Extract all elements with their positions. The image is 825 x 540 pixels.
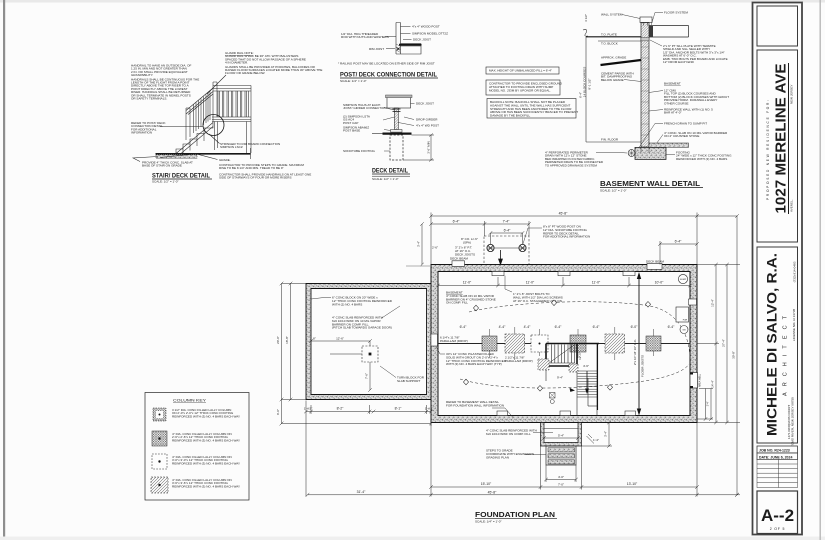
- sump circle: [678, 274, 687, 283]
- svg-text:SCALE: 1/2" = 1'-0": SCALE: 1/2" = 1'-0": [600, 189, 627, 193]
- svg-text:GRADE.: GRADE.: [219, 158, 231, 162]
- svg-text:5'-4": 5'-4": [558, 434, 564, 438]
- svg-text:4"x 4" WOOD POST: 4"x 4" WOOD POST: [412, 25, 440, 29]
- stoop step 2: [548, 454, 575, 458]
- top right dim 6'-4": [658, 241, 699, 265]
- svg-text:2 OF 5: 2 OF 5: [770, 527, 786, 531]
- approx grade thick line: [601, 60, 642, 65]
- lower stair treads: [578, 371, 598, 394]
- deck joists note: [455, 246, 475, 257]
- svg-text:AREA WELL: AREA WELL: [699, 373, 702, 387]
- svg-text:SCALE: 1/4" = 1'-0": SCALE: 1/4" = 1'-0": [340, 79, 367, 83]
- key symbol 1: [153, 408, 166, 421]
- drop girder hatched post: [394, 108, 398, 130]
- leader slab note: [133, 157, 158, 162]
- note box: sump pump: [486, 80, 560, 95]
- svg-text:(732) 914-0483: (732) 914-0483: [793, 261, 797, 282]
- title box 3 (architect): [757, 247, 798, 443]
- right side dims: [697, 214, 740, 496]
- stair down arrow: [586, 371, 588, 391]
- stair balusters on slope: [194, 92, 211, 134]
- leader guard rail note: [207, 75, 226, 94]
- steps to grade note: [486, 449, 534, 460]
- joist bolts note: [513, 292, 563, 303]
- key symbol 4: [151, 477, 168, 493]
- svg-text:12'-4": 12'-4": [711, 299, 715, 307]
- svg-text:PARALLAM (DROP): PARALLAM (DROP): [505, 359, 533, 363]
- refer to basement wall note: [446, 400, 504, 407]
- svg-text:4'-6": 4'-6": [583, 364, 589, 368]
- deck detail leaders: [383, 104, 415, 152]
- svg-text:FRENCH DRAIN TO SUMP PIT: FRENCH DRAIN TO SUMP PIT: [664, 122, 707, 126]
- deck beam line between posts: [487, 247, 526, 249]
- svg-text:INFORMATION: INFORMATION: [131, 131, 152, 135]
- ext line from main corner left: [406, 265, 431, 267]
- right paper edge line: [820, 0, 821, 540]
- svg-text:6'-4": 6'-4": [668, 325, 676, 329]
- svg-text:30'-8": 30'-8": [732, 351, 736, 359]
- top wall pilasters: [492, 272, 635, 276]
- deck detail left labels: [343, 103, 387, 153]
- column A crosshatch: [482, 336, 497, 351]
- svg-text:RIM JOIST: RIM JOIST: [369, 47, 384, 51]
- svg-text:FIN. FLOOR: FIN. FLOOR: [601, 138, 619, 142]
- svg-text:SIDE OF STAIRWAYS OF FOUR OR M: SIDE OF STAIRWAYS OF FOUR OR MORE RISERS: [219, 176, 292, 180]
- span bubble arcs: [469, 302, 690, 358]
- T.O. PLATE line: [586, 36, 641, 38]
- stoop step 1: [548, 448, 575, 452]
- svg-text:6'-0": 6'-0": [276, 409, 280, 415]
- leader grade note: [160, 154, 218, 160]
- svg-text:FOUNDATION PLAN: FOUNDATION PLAN: [475, 512, 555, 519]
- sheet number box: [757, 491, 798, 534]
- gb circle: [680, 326, 688, 334]
- column D crosshatch: [570, 335, 586, 352]
- sill note leader: [650, 40, 662, 46]
- column E diagonal dashed: [605, 334, 625, 353]
- svg-text:12'-6": 12'-6": [336, 337, 344, 341]
- rim board dark: [649, 26, 653, 37]
- handrail note text: [131, 64, 199, 101]
- block course lines: [641, 47, 649, 135]
- footing depth dim: [403, 134, 434, 162]
- svg-text:SCALE: 1/2" = 1'-0": SCALE: 1/2" = 1'-0": [152, 180, 179, 184]
- svg-text:8'-2": 8'-2": [337, 407, 345, 411]
- reinforce leader: [649, 110, 663, 112]
- svg-text:3'-4": 3'-4": [604, 431, 608, 437]
- svg-text:GRADING PLAN: GRADING PLAN: [486, 455, 509, 459]
- svg-text:6'-4": 6'-4": [555, 325, 563, 329]
- stair mid newel post: [186, 108, 190, 140]
- top dim row 2: [429, 221, 531, 236]
- footing leader: [666, 154, 675, 156]
- footing keyway: [641, 147, 649, 152]
- svg-text:7'-0": 7'-0": [558, 483, 564, 487]
- svg-text:7'-6": 7'-6": [365, 373, 369, 379]
- svg-text:POST BASE: POST BASE: [343, 129, 360, 133]
- note box: backfill: [487, 99, 576, 119]
- slab note at stoop: [486, 429, 537, 436]
- garage block note: [332, 296, 393, 307]
- svg-text:11'-0": 11'-0": [592, 281, 601, 285]
- stoop interior dim: [542, 436, 580, 440]
- title block outer frame: [753, 3, 803, 535]
- refer to post/deck note: [131, 121, 166, 135]
- bottom dim row 2: [429, 423, 699, 497]
- svg-text:WITH (2) NO. 4 BARS: WITH (2) NO. 4 BARS: [332, 302, 362, 306]
- threaded rod note: [341, 32, 389, 39]
- garage bottom dims: [304, 401, 433, 419]
- left height dim line: [583, 29, 588, 142]
- svg-text:3'-4": 3'-4": [417, 241, 421, 247]
- svg-text:6'-4": 6'-4": [504, 229, 512, 233]
- column center ticks: [490, 327, 654, 360]
- svg-text:3'-4": 3'-4": [708, 402, 710, 407]
- svg-text:20'-0": 20'-0": [276, 336, 280, 344]
- stoop step 3: [548, 460, 575, 464]
- garage column dashed block: [362, 346, 378, 362]
- stair thick L: [546, 344, 599, 367]
- svg-text:BELOW GRADE: BELOW GRADE: [601, 78, 624, 82]
- svg-text:6'-0": 6'-0": [631, 325, 639, 329]
- title box 2 (project address): [757, 50, 798, 242]
- leader stringer note: [209, 134, 220, 144]
- left wall pilaster: [431, 334, 438, 346]
- svg-text:SUMP: SUMP: [680, 279, 687, 281]
- svg-text:DECK BEAM: DECK BEAM: [646, 259, 664, 263]
- svg-text:ON COMP. FILL: ON COMP. FILL: [446, 301, 468, 305]
- svg-text:7'-4": 7'-4": [503, 220, 511, 224]
- deck guard rail top: [213, 86, 251, 92]
- svg-text:6'-4": 6'-4": [593, 325, 601, 329]
- cement parge leader: [624, 80, 641, 82]
- svg-text:SCALE: 1/2" = 1'-0": SCALE: 1/2" = 1'-0": [372, 177, 399, 181]
- svg-text:FOR FOUNDATION WALL INFORMATIO: FOR FOUNDATION WALL INFORMATION: [446, 403, 504, 407]
- wall system leader: [622, 15, 640, 19]
- joist span arrow: [638, 275, 640, 413]
- deck dashed outline: [484, 236, 529, 265]
- french drain pipe: [628, 150, 635, 157]
- svg-text:REINFORCED WITH (3) NO. 4 BARS: REINFORCED WITH (3) NO. 4 BARS EACH WAY: [172, 438, 240, 442]
- right wall pilaster: [689, 299, 697, 305]
- stoop steps outer: [546, 446, 576, 465]
- stoop right small dim: [582, 421, 613, 448]
- svg-text:JOB NO. R24-1223: JOB NO. R24-1223: [759, 449, 790, 453]
- sill plate note: [663, 44, 728, 64]
- conc slab leader: [657, 135, 663, 143]
- stair newel post top: [213, 82, 218, 150]
- stair hatch squares: [538, 359, 549, 370]
- column key box: [145, 393, 249, 501]
- column dim labels: [460, 325, 676, 329]
- svg-text:A--2: A--2: [761, 506, 794, 525]
- grade bar: [383, 133, 412, 135]
- svg-text:ON 4" CRUSHED STONE: ON 4" CRUSHED STONE: [664, 134, 699, 138]
- deck joist bar: [401, 43, 422, 45]
- footing: [635, 147, 666, 159]
- svg-text:ARCHITECT: ARCHITECT: [783, 315, 789, 396]
- svg-text:4'-4": 4'-4": [499, 325, 507, 329]
- joist bolts leader: [505, 276, 512, 292]
- deck detail right labels: [416, 102, 439, 128]
- stair treads: [176, 122, 213, 154]
- girder connection marks: [393, 109, 401, 112]
- svg-text:PARALLAM (DROP): PARALLAM (DROP): [440, 339, 468, 343]
- left paper edge: [3, 0, 5, 540]
- svg-text:FUR: FUR: [683, 320, 688, 322]
- svg-text:WITH (3) NO. 4 BARS EACH WAY (: WITH (3) NO. 4 BARS EACH WAY (TYP): [446, 362, 502, 366]
- wall system box above: [640, 17, 652, 23]
- svg-text:15'-10": 15'-10": [481, 482, 492, 486]
- svg-text:AVENEL,: AVENEL,: [790, 199, 794, 212]
- svg-text:SLAB SUPPORT: SLAB SUPPORT: [397, 379, 420, 383]
- cement parge note: [601, 72, 634, 82]
- svg-text:SONOTUBE FOOTING: SONOTUBE FOOTING: [343, 149, 375, 153]
- footing note: [676, 151, 732, 161]
- stair enclosure: [546, 344, 597, 416]
- svg-text:3 1/2": 3 1/2": [584, 14, 588, 22]
- svg-text:DECK JOIST: DECK JOIST: [416, 102, 434, 106]
- svg-text:JOIST/ GIRDER CONNECTION: JOIST/ GIRDER CONNECTION: [343, 106, 387, 110]
- deck rim and post right: [247, 86, 252, 154]
- stringer connection note: [220, 142, 280, 149]
- slab note: [142, 161, 193, 168]
- garage left dims: [280, 282, 306, 426]
- svg-text:10'-0": 10'-0": [655, 281, 664, 285]
- bottom paper edge: [0, 537, 825, 540]
- sill plate: [641, 38, 649, 41]
- svg-text:NEW JERSEY: NEW JERSEY: [790, 84, 794, 104]
- top paper edge: [0, 0, 825, 3]
- floor system leader: [651, 13, 663, 26]
- svg-text:8": 8": [313, 337, 316, 341]
- svg-text:APPROX. GRADE: APPROX. GRADE: [601, 56, 626, 60]
- svg-text:11'-0": 11'-0": [463, 281, 472, 285]
- leader to detail circle: [160, 126, 203, 128]
- svg-text:13'-10": 13'-10": [627, 482, 638, 486]
- svg-text:TOMS RIVER, NEW JERSEY 087: TOMS RIVER, NEW JERSEY 08755: [791, 397, 795, 447]
- garage overall dim: [280, 414, 433, 426]
- wood post: [396, 23, 401, 55]
- sonotube footing dashed: [390, 135, 403, 160]
- svg-text:4'-4": 4'-4": [524, 325, 532, 329]
- key symbol 3: [152, 454, 167, 469]
- svg-text:GB: GB: [682, 330, 686, 332]
- svg-text:FLOOR JOISTS: FLOOR JOISTS: [641, 355, 645, 377]
- svg-text:2'-6": 2'-6": [432, 246, 438, 250]
- garage slab leader: [381, 306, 400, 319]
- svg-text:2"x 10" AT 16" O.C.: 2"x 10" AT 16" O.C.: [633, 339, 637, 365]
- svg-text:45'-8": 45'-8": [488, 490, 497, 494]
- svg-text:MICHELE DI SALVO, R.A.: MICHELE DI SALVO, R.A.: [765, 253, 780, 436]
- svg-text:T.O. BLOCK: T.O. BLOCK: [601, 41, 618, 45]
- svg-text:6x6 10/10 WWF ON COMP. FILL: 6x6 10/10 WWF ON COMP. FILL: [486, 432, 531, 436]
- svg-text:(PITCH SLAB TOWARDS GARAGE DOO: (PITCH SLAB TOWARDS GARAGE DOOR): [332, 326, 392, 330]
- svg-text:BAR AT 4'-0": BAR AT 4'-0": [664, 111, 681, 115]
- deck board on joist: [386, 95, 413, 98]
- riser verticals below: [183, 134, 204, 154]
- steps to grade note: [219, 163, 311, 180]
- block wall strip: [641, 23, 649, 148]
- bolt symbols: [397, 48, 400, 51]
- svg-text:REINFORCED WITH (3) NO. 4 BARS: REINFORCED WITH (3) NO. 4 BARS EACH WAY: [172, 461, 240, 465]
- column F crosshatch: [646, 336, 661, 351]
- turn block leader: [380, 366, 396, 378]
- svg-text:T.O. PLATE: T.O. PLATE: [601, 33, 617, 37]
- svg-text:1'-4.5": 1'-4.5": [304, 407, 313, 411]
- svg-text:FLOOR SYSTEM: FLOOR SYSTEM: [664, 11, 688, 15]
- svg-text:6'-4": 6'-4": [460, 325, 468, 329]
- svg-text:SCALE: 1/4" = 1'-0": SCALE: 1/4" = 1'-0": [475, 520, 502, 524]
- svg-text:12" FROM EACH END: 12" FROM EACH END: [663, 60, 695, 64]
- stoop wall: [541, 423, 582, 447]
- post hatch at connection: [396, 44, 401, 53]
- fur box: [676, 307, 689, 322]
- deck piers on top wall: [452, 261, 465, 267]
- deck post note leader: [523, 228, 542, 244]
- svg-text:3'-6" MIN: 3'-6" MIN: [427, 141, 431, 154]
- turn block note: [397, 376, 425, 383]
- svg-text:POST/ DECK CONNECTION DETAI: POST/ DECK CONNECTION DETAIL: [340, 73, 437, 79]
- garage block leader: [311, 298, 331, 300]
- perimeter drain note: [545, 151, 604, 168]
- top dim row 3 (between posts): [489, 231, 525, 244]
- svg-text:REINFORCED WITH (3) NO. 4 BARS: REINFORCED WITH (3) NO. 4 BARS EACH WAY: [172, 484, 240, 488]
- svg-text:12'-1": 12'-1": [578, 352, 582, 360]
- svg-text:MAX. HEIGHT OF UNBALANCED FILL: MAX. HEIGHT OF UNBALANCED FILL = 6'-4": [489, 69, 552, 73]
- svg-text:FOR ADDITIONAL INFORMATION: FOR ADDITIONAL INFORMATION: [543, 235, 590, 239]
- stoop corner small dim tick: [587, 434, 595, 444]
- basement slab: [649, 143, 689, 147]
- svg-text:14'-4": 14'-4": [711, 380, 715, 388]
- top overall dim line 45'-8": [429, 213, 737, 265]
- garage column dims: [309, 339, 372, 392]
- pilaster note leader: [436, 347, 445, 355]
- floor system: [649, 26, 689, 38]
- svg-text:31'-4": 31'-4": [357, 490, 366, 494]
- svg-text:1'-4.5": 1'-4.5": [425, 407, 434, 411]
- svg-text:ROD WITH NUTS AND WASHERS: ROD WITH NUTS AND WASHERS: [341, 35, 389, 39]
- svg-text:DROP GIRDER: DROP GIRDER: [416, 118, 438, 122]
- conc slab at stair base: [156, 155, 197, 159]
- svg-text:DATE: JUNE 6, 2024: DATE: JUNE 6, 2024: [759, 455, 792, 459]
- fin floor line: [586, 141, 641, 143]
- deck balusters: [218, 91, 249, 117]
- parallam label left: [440, 336, 468, 343]
- svg-text:BASEMENT WALL DETAIL: BASEMENT WALL DETAIL: [600, 181, 701, 188]
- svg-text:REINFORCED WITH (3) NO. 4 BARS: REINFORCED WITH (3) NO. 4 BARS EACH WAY: [172, 414, 240, 418]
- stair up diagonal: [549, 345, 574, 363]
- garage wall: [306, 284, 431, 400]
- svg-text:TO APPROVED DRAINAGE SYSTEM: TO APPROVED DRAINAGE SYSTEM: [545, 163, 597, 167]
- area well opening in right wall: [690, 373, 698, 389]
- post/deck labels right: [412, 25, 448, 42]
- svg-text:8'-1": 8'-1": [395, 407, 403, 411]
- stair stringer: [176, 123, 213, 154]
- svg-text:45'-8": 45'-8": [559, 212, 568, 216]
- deck post left: [487, 244, 494, 251]
- svg-text:6'-4": 6'-4": [675, 240, 683, 244]
- svg-text:OTHER COURSE: OTHER COURSE: [664, 101, 689, 105]
- detail callout circle: [203, 115, 224, 136]
- svg-text:4"x 4" WD POST: 4"x 4" WD POST: [416, 124, 439, 128]
- left vertical dim 3'-4": [420, 222, 424, 266]
- svg-text:POST CAP: POST CAP: [343, 121, 358, 125]
- svg-text:MODEL NO. J33M BY UPONOR OR EQ: MODEL NO. J33M BY UPONOR OR EQUAL.: [489, 88, 551, 92]
- svg-text:11'-0": 11'-0": [526, 281, 535, 285]
- perimeter drain leader: [596, 152, 627, 155]
- svg-text:DAMAGE BY THE BACKFILL: DAMAGE BY THE BACKFILL: [490, 114, 530, 118]
- deck post right: [519, 244, 526, 251]
- svg-text:FLOOR OR GRADE BELOW.: FLOOR OR GRADE BELOW.: [225, 71, 265, 75]
- svg-text:8'-1 1/2": 8'-1 1/2": [588, 78, 592, 89]
- cmu leader: [649, 91, 663, 93]
- bottom overall dim: [306, 418, 740, 497]
- post base plate: [391, 130, 403, 133]
- svg-text:SIMPSON LSCZ: SIMPSON LSCZ: [220, 145, 243, 149]
- ground line: [156, 153, 251, 155]
- svg-text:1'-4": 1'-4": [593, 438, 599, 442]
- svg-text:RISE TO BE 8 1/4" AND MIN. TRE: RISE TO BE 8 1/4" AND MIN. TREAD TO BE 9…: [219, 166, 284, 170]
- svg-text:27'-4": 27'-4": [722, 339, 726, 347]
- T.O. BLOCK line: [598, 40, 641, 42]
- svg-text:14 BLOCK COURSES: 14 BLOCK COURSES: [583, 67, 587, 97]
- stoop landing edge: [544, 428, 578, 430]
- svg-text:DECK BEAM: DECK BEAM: [450, 257, 468, 261]
- job no row: [757, 446, 798, 453]
- arc diamonds: [463, 300, 650, 391]
- interior top dim row 11'-0": [436, 277, 692, 287]
- deck post note: [543, 225, 590, 239]
- conc slab note: [664, 131, 728, 138]
- joist thick top: [399, 44, 422, 46]
- bottom wall pilasters: [497, 411, 636, 416]
- svg-text:OR SAFETY TERMINALS.: OR SAFETY TERMINALS.: [131, 97, 167, 101]
- parallam label mid: [505, 356, 533, 363]
- svg-text:REINFORCED WITH (3) NO. 4 BARS: REINFORCED WITH (3) NO. 4 BARS: [676, 157, 727, 161]
- guard rail note text: [225, 51, 322, 75]
- upper stair treads: [552, 345, 575, 364]
- refer note leader: [492, 408, 513, 418]
- svg-text:COLUMN KEY: COLUMN KEY: [173, 399, 207, 403]
- svg-text:4'-0": 4'-0": [558, 475, 564, 479]
- svg-text:1027 MERELINE AVE: 1027 MERELINE AVE: [774, 63, 790, 213]
- deck floor boards: [212, 117, 251, 122]
- note box: max unbalanced fill: [486, 67, 559, 74]
- title box 1 (empty seal box): [757, 6, 798, 46]
- svg-text:9'-4": 9'-4": [557, 376, 563, 380]
- svg-text:DECK JOISTS: DECK JOISTS: [455, 252, 475, 256]
- basement label block: [446, 291, 496, 305]
- deck joist box: [387, 97, 411, 109]
- column C dashed white: [531, 335, 548, 352]
- svg-text:18'-8": 18'-8": [285, 336, 289, 344]
- svg-text:* RAILING POST MAY BE LOCATED: * RAILING POST MAY BE LOCATED ON EITHER …: [338, 62, 435, 66]
- column B diagonal dashed: [505, 334, 525, 353]
- svg-text:6'-4": 6'-4": [453, 220, 461, 224]
- water heater mark: [550, 393, 556, 399]
- sloped stair handrail: [186, 88, 213, 115]
- post/deck leaders: [385, 27, 412, 49]
- deck small dim label: [461, 237, 478, 244]
- svg-text:BASE OF STAIR ON GRADE: BASE OF STAIR ON GRADE: [142, 164, 182, 168]
- bottom dim row 4'-0": [544, 465, 578, 482]
- svg-text:DECK JOIST: DECK JOIST: [413, 38, 431, 42]
- address underline: [788, 63, 790, 214]
- reinforce note: [664, 108, 713, 115]
- girder line: [438, 343, 690, 345]
- svg-text:SIMPSON MODEL DTT2Z: SIMPSON MODEL DTT2Z: [412, 32, 448, 36]
